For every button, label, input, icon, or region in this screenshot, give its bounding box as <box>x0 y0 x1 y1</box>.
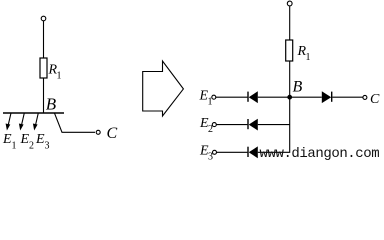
wire <box>289 7 291 41</box>
emitter arrow E2 (left) <box>19 113 24 131</box>
svg-text:2: 2 <box>29 141 34 152</box>
terminal node E2 (right) <box>212 123 216 127</box>
resistor R1 (right) <box>286 40 293 61</box>
svg-text:www.diangon.com: www.diangon.com <box>260 146 380 162</box>
terminal node E1 (right) <box>212 95 216 99</box>
terminal node E3 (right) <box>213 150 217 154</box>
svg-text:1: 1 <box>306 52 311 63</box>
svg-text:1: 1 <box>12 141 17 152</box>
wire <box>216 96 248 98</box>
wire <box>217 151 248 153</box>
equivalence arrow <box>143 61 184 116</box>
wire <box>332 96 362 98</box>
node B junction dot <box>287 95 292 100</box>
base bar (multi-emitter transistor) <box>3 112 64 114</box>
svg-text:B: B <box>293 79 303 96</box>
resistor R1 (left) <box>40 58 47 78</box>
wire <box>258 124 290 126</box>
diode B-E2 <box>248 119 258 131</box>
svg-text:B: B <box>46 95 57 114</box>
wire <box>43 21 45 58</box>
wire B to C diode <box>290 96 322 98</box>
collector wire (left) <box>55 113 96 132</box>
svg-text:C: C <box>107 125 118 142</box>
terminal node C (right) <box>363 95 367 99</box>
diode B-C <box>322 91 332 103</box>
terminal node (right circuit top) <box>287 1 292 6</box>
svg-text:E: E <box>35 132 45 147</box>
wire <box>289 61 291 97</box>
diode B-E1 <box>248 91 258 103</box>
svg-text:E: E <box>2 132 12 147</box>
diode B-E3 <box>248 146 258 158</box>
terminal node C (left) <box>96 130 100 134</box>
wire <box>216 124 247 126</box>
svg-text:1: 1 <box>57 71 62 82</box>
svg-text:3: 3 <box>45 141 50 152</box>
wire <box>258 96 290 98</box>
emitter arrow E1 (left) <box>6 113 11 131</box>
wire <box>43 78 45 113</box>
terminal node (left circuit top) <box>41 16 46 21</box>
emitter arrow E3 (left) <box>33 113 38 131</box>
svg-text:C: C <box>370 92 380 107</box>
svg-text:E: E <box>20 132 30 147</box>
bus wire B to E3 row <box>258 97 290 152</box>
